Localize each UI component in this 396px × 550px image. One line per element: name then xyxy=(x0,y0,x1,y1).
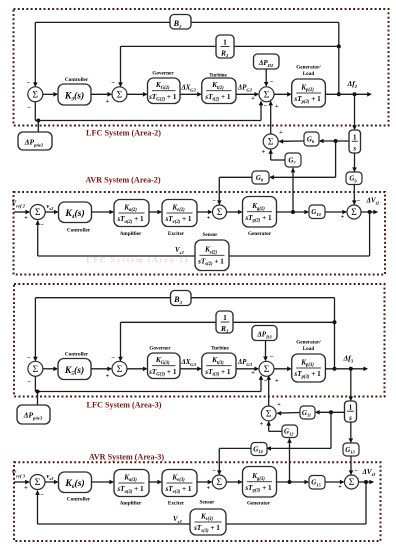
svg-text:s: s xyxy=(352,145,356,153)
block generator-load LFC3 xyxy=(292,354,326,382)
wire S1 to controller K4, label vs2 xyxy=(45,211,57,213)
svg-text:+: + xyxy=(251,370,255,377)
wire integrator output to G11 xyxy=(316,411,345,413)
svg-text:Generator/: Generator/ xyxy=(296,340,321,346)
wire S3 to generator block xyxy=(274,93,291,95)
wire controller to S2 LFC3 xyxy=(91,368,111,370)
summer S3 LFC3 xyxy=(259,361,274,376)
summer coupling area2 xyxy=(263,134,278,149)
wire df2 down to integrator xyxy=(354,94,356,129)
svg-text:+: + xyxy=(251,95,255,102)
svg-text:−: − xyxy=(270,354,274,361)
block 1/R3 xyxy=(216,311,233,333)
wire S2 to governor xyxy=(127,93,147,95)
wire 1/R3 feedback line xyxy=(121,321,335,323)
block governor LFC2 xyxy=(148,78,181,104)
block generator-load LFC2 xyxy=(292,79,326,107)
svg-text:Load: Load xyxy=(303,71,315,77)
wire ptie3 line xyxy=(34,376,36,391)
svg-text:−: − xyxy=(27,80,31,87)
wire dPptie3 riser xyxy=(37,392,39,406)
wire B3 feedback top line xyxy=(35,297,334,299)
block controller K6(s) xyxy=(59,472,92,493)
svg-text:+: + xyxy=(338,484,342,491)
wire governor to turbine LFC3 label dXG3 xyxy=(180,368,201,370)
svg-text:+: + xyxy=(106,373,110,380)
wire S2 to generator AVR3 xyxy=(226,481,241,483)
block B3 xyxy=(171,291,192,306)
block G6 xyxy=(304,132,319,146)
border LFC System Area-2 xyxy=(14,9,389,126)
wire dPD2 into S3 xyxy=(265,69,267,86)
block amplifier AVR3 xyxy=(114,470,149,497)
svg-text:Controller: Controller xyxy=(65,352,89,358)
wire sensor feedback AVR3 xyxy=(365,482,367,524)
block integrator 1/s area2 xyxy=(349,130,361,153)
wire frequency output df2 xyxy=(325,93,370,95)
svg-text:Governer: Governer xyxy=(149,346,171,352)
svg-text:Σ: Σ xyxy=(117,91,123,101)
wire turbine to S3 LFC3 label dPG3 xyxy=(236,368,258,370)
svg-text:Σ: Σ xyxy=(217,208,223,218)
block G7 xyxy=(285,153,301,167)
summer S2 AVR3 xyxy=(212,475,226,489)
block controller K4(s) xyxy=(59,202,92,223)
wire sensor feedback AVR2 xyxy=(369,212,371,256)
svg-text:+: + xyxy=(260,421,264,428)
svg-text:Σ: Σ xyxy=(266,410,272,420)
wire turbine to S3, label dPG2 xyxy=(236,93,258,95)
block sensor AVR2 xyxy=(195,240,229,271)
svg-text:+: + xyxy=(277,401,281,408)
block 1/R2 xyxy=(216,35,234,58)
svg-text:Controller: Controller xyxy=(67,497,91,503)
svg-text:−: − xyxy=(354,468,358,475)
svg-text:AVR System (Area-3): AVR System (Area-3) xyxy=(89,453,164,462)
svg-text:+: + xyxy=(262,149,266,156)
svg-text:Generator/: Generator/ xyxy=(296,65,321,71)
block sensor AVR3 xyxy=(190,509,226,535)
wire integrator down to G9 xyxy=(354,153,356,171)
summer S2 LFC2 xyxy=(112,87,127,102)
svg-text:AVR System (Area-2): AVR System (Area-2) xyxy=(85,175,160,184)
wire S1 to controller xyxy=(43,93,57,95)
svg-text:−: − xyxy=(263,378,267,385)
svg-text:Σ: Σ xyxy=(268,138,274,148)
wire tap down to G8 xyxy=(335,141,337,177)
wire dPptie2 riser xyxy=(37,121,39,133)
wire feedback riser from frequency output xyxy=(338,22,340,94)
wire S3 to generator LFC3 xyxy=(274,368,291,370)
block G12 xyxy=(282,425,298,438)
wire G15 to output summer AVR3 xyxy=(325,481,344,483)
block controller K5(s) xyxy=(58,359,91,380)
wire G8 to AVR2 summer S2 xyxy=(219,176,252,178)
summer S3 LFC2 xyxy=(259,87,274,102)
summer S3 AVR3 output xyxy=(345,475,359,489)
wire S2 to governor LFC3 xyxy=(127,368,147,370)
block turbine LFC3 xyxy=(202,353,236,379)
svg-text:1: 1 xyxy=(349,404,353,412)
svg-text:+: + xyxy=(341,214,345,221)
summer S2 LFC3 xyxy=(112,361,127,376)
wire G12 output into coupling summer area3 xyxy=(269,430,282,432)
summer S1 LFC3 xyxy=(28,361,43,376)
svg-text:K5(s): K5(s) xyxy=(64,365,84,377)
wire G7 output into coupling summer xyxy=(271,159,285,161)
svg-text:Generator: Generator xyxy=(248,231,272,237)
svg-text:K4(s): K4(s) xyxy=(64,208,84,220)
wire G14 to AVR3 summer S2 xyxy=(219,447,251,449)
wire frequency output df3 xyxy=(325,368,367,370)
svg-text:K6(s): K6(s) xyxy=(64,478,84,490)
wire K4 to amplifier xyxy=(92,211,114,213)
svg-text:−: − xyxy=(270,79,274,86)
wire feedback riser from df3 xyxy=(334,298,336,369)
block integrator 1/s area3 xyxy=(345,401,357,422)
svg-text:+: + xyxy=(207,215,211,222)
block turbine LFC2 xyxy=(202,78,236,104)
svg-text:−: − xyxy=(111,355,115,362)
svg-text:+: + xyxy=(24,215,28,222)
svg-text:Σ: Σ xyxy=(349,478,355,488)
svg-text:LFC System (Area-2): LFC System (Area-2) xyxy=(86,256,188,265)
svg-text:Σ: Σ xyxy=(117,365,123,375)
svg-text:−: − xyxy=(263,103,267,110)
block dPD2 load disturbance xyxy=(254,54,280,69)
svg-text:K3(s): K3(s) xyxy=(64,91,84,103)
svg-text:+: + xyxy=(24,485,28,492)
wire S2 to generator AVR2 xyxy=(227,211,242,213)
wire sensor to S1 AVR3 xyxy=(38,523,191,525)
svg-text:s: s xyxy=(348,414,352,422)
wire S1 to controller K6 label vs3 xyxy=(45,481,58,483)
block amplifier AVR2 xyxy=(114,200,149,227)
wire coupling into S3 bottom xyxy=(270,102,272,135)
wire exciter to S2 AVR3 xyxy=(197,481,211,483)
block generator AVR3 xyxy=(243,467,277,498)
svg-text:Load: Load xyxy=(303,346,315,352)
wire output dVt3 xyxy=(359,481,374,483)
svg-text:Exciter: Exciter xyxy=(168,501,185,507)
svg-text:Controller: Controller xyxy=(65,77,89,83)
wire exciter to S2 AVR2 xyxy=(197,211,212,213)
svg-text:−: − xyxy=(27,379,31,386)
block dPptie2 xyxy=(18,132,52,150)
wire tap down to G14 xyxy=(330,412,332,448)
wire Vref2 input xyxy=(14,211,29,213)
wire 1/R2 feedback line xyxy=(121,45,339,47)
svg-text:Σ: Σ xyxy=(33,91,39,101)
block B2 xyxy=(170,15,191,30)
border AVR System Area-3 xyxy=(14,462,381,541)
svg-text:−: − xyxy=(27,105,31,112)
svg-text:−: − xyxy=(40,492,44,499)
svg-text:−: − xyxy=(212,198,216,205)
wire AVR3 field tap up to G12 xyxy=(289,438,291,482)
svg-text:Generator: Generator xyxy=(247,501,271,507)
svg-text:1: 1 xyxy=(223,313,227,322)
block G15 xyxy=(309,476,325,490)
svg-text:Σ: Σ xyxy=(35,208,41,218)
block G14 xyxy=(251,443,267,456)
wire generator output to G15 xyxy=(277,481,309,483)
block generator AVR2 xyxy=(243,197,277,228)
svg-text:Governer: Governer xyxy=(152,71,174,77)
wire amplifier to exciter AVR3 xyxy=(149,481,161,483)
wire amplifier to exciter xyxy=(149,211,161,213)
summer S1 AVR2 xyxy=(30,205,45,220)
svg-text:−: − xyxy=(27,355,31,362)
wire Vref3 input xyxy=(14,481,29,483)
wire B2 feedback top line xyxy=(35,21,339,23)
svg-text:Sensor: Sensor xyxy=(200,500,216,506)
svg-text:1: 1 xyxy=(223,38,227,47)
wire S1 to controller LFC3 xyxy=(43,368,57,370)
wire output dVt2 xyxy=(361,211,377,213)
svg-text:+: + xyxy=(275,378,279,385)
wire generator output to G10 xyxy=(277,211,309,213)
svg-text:−: − xyxy=(357,198,361,205)
wire G10 to output summer xyxy=(325,211,346,213)
wire AVR2 field tap up to G7 xyxy=(292,168,294,212)
wire df3 down to integrator area3 xyxy=(350,369,352,400)
wire dPD3 into S3 xyxy=(265,341,267,361)
wire integrator down to G13 xyxy=(350,422,352,442)
svg-text:LFC System (Area-2): LFC System (Area-2) xyxy=(86,129,161,138)
svg-text:Sensor: Sensor xyxy=(203,232,219,238)
block dPD3 xyxy=(252,326,277,341)
svg-text:+: + xyxy=(279,129,283,136)
summer S2 AVR2 xyxy=(213,205,227,219)
block G9 xyxy=(346,172,362,185)
wire G6 to coupling summer xyxy=(279,140,304,142)
svg-text:Controller: Controller xyxy=(67,228,91,234)
svg-text:−: − xyxy=(40,222,44,229)
block G10 xyxy=(309,205,325,219)
summer S1 AVR3 xyxy=(30,475,45,490)
block exciter AVR3 xyxy=(162,470,197,497)
block G11 xyxy=(300,406,315,419)
svg-text:Σ: Σ xyxy=(217,478,223,488)
wire ptie2 line to S1 and S3 xyxy=(34,102,36,121)
svg-text:+: + xyxy=(206,485,210,492)
svg-text:Amplifier: Amplifier xyxy=(120,501,142,507)
block G13 xyxy=(343,443,359,456)
svg-text:LFC System (Area-3): LFC System (Area-3) xyxy=(87,400,162,409)
wire sensor to S1 AVR2 xyxy=(38,255,195,257)
summer coupling area3 xyxy=(261,406,276,421)
svg-text:Σ: Σ xyxy=(351,208,357,218)
wire governor to turbine, label dXG2 xyxy=(180,93,201,95)
wire coupling into S3 LFC3 xyxy=(268,376,270,406)
summer S1 LFC2 xyxy=(28,87,43,102)
summer S3 AVR2 output xyxy=(347,205,361,219)
svg-text:Σ: Σ xyxy=(264,365,270,375)
wire K6 to amplifier AVR3 xyxy=(92,481,114,483)
svg-text:Turbine: Turbine xyxy=(211,346,229,352)
svg-text:−: − xyxy=(212,468,216,475)
svg-text:Σ: Σ xyxy=(35,478,41,488)
wire G9 down to AVR2 output summer xyxy=(353,185,355,205)
svg-text:Exciter: Exciter xyxy=(168,231,185,237)
svg-text:+: + xyxy=(275,103,279,110)
wire controller to S2 xyxy=(91,93,111,95)
wire G11 to coupling summer area3 xyxy=(277,412,300,415)
svg-text:−: − xyxy=(111,80,115,87)
block controller K3(s) xyxy=(58,84,91,105)
wire integrator output to G6 and tap xyxy=(320,140,349,142)
block governor LFC3 xyxy=(148,353,181,379)
border LFC System Area-3 xyxy=(14,284,385,397)
block G8 xyxy=(252,171,269,184)
wire G13 down to AVR3 output summer xyxy=(350,456,352,474)
svg-text:Amplifier: Amplifier xyxy=(120,231,142,237)
svg-text:Σ: Σ xyxy=(264,91,270,101)
svg-text:1: 1 xyxy=(353,134,357,142)
block exciter AVR2 xyxy=(162,200,197,227)
block dPptie3 xyxy=(17,405,50,424)
svg-text:Σ: Σ xyxy=(33,365,39,375)
svg-text:+: + xyxy=(106,98,110,105)
border AVR System Area-2 xyxy=(14,192,386,275)
